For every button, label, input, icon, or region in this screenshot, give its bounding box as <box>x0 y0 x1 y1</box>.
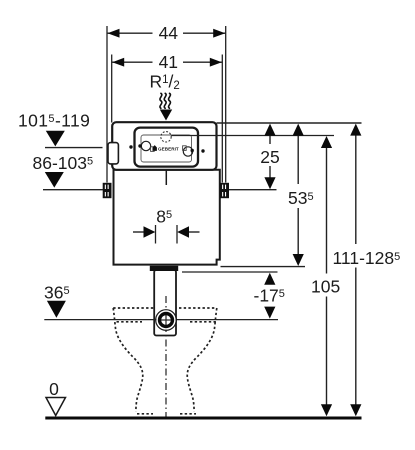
extension line left 44 <box>106 26 108 183</box>
flush pipe line below panel <box>165 170 167 185</box>
svg-text:25: 25 <box>260 147 279 167</box>
dimension 25 <box>269 130 271 144</box>
level line 36.5 <box>44 319 278 321</box>
dimension 53.5 <box>297 130 299 184</box>
level triangle 36.5 <box>47 301 66 318</box>
level line 101.5-119 <box>45 147 103 149</box>
reference line 53.5 bottom <box>221 266 306 268</box>
level line 86-103.5 <box>43 189 103 191</box>
access panel inner frame <box>141 135 192 162</box>
extension line right 41 <box>221 55 223 183</box>
leader line from water connection <box>171 135 334 137</box>
svg-text:111-1285: 111-1285 <box>333 248 401 268</box>
svg-text:535: 535 <box>288 188 314 208</box>
svg-text:41: 41 <box>159 52 178 72</box>
dimension -17.5 arrows <box>264 273 275 285</box>
svg-text:GEBERIT: GEBERIT <box>158 147 179 152</box>
svg-text:365: 365 <box>44 283 70 303</box>
svg-text:-175: -175 <box>254 286 285 306</box>
toilet bowl dashed outline <box>113 308 217 414</box>
dimension 111-128.5 <box>355 130 357 244</box>
svg-text:105: 105 <box>311 276 340 296</box>
extension line left 41 <box>111 55 113 123</box>
water connection dashed circle <box>161 132 171 142</box>
access panel outer <box>135 128 199 167</box>
svg-text:86-1035: 86-1035 <box>33 153 94 173</box>
dimension 105 <box>326 142 328 274</box>
outlet connection circle <box>156 310 177 331</box>
center line (dash-dot) <box>165 296 167 421</box>
water supply arrow <box>160 110 172 121</box>
left wall bracket <box>103 183 112 198</box>
left hole circle <box>141 141 150 150</box>
extension line right 44 <box>225 26 227 183</box>
floor line <box>45 417 361 420</box>
geberit logo <box>153 145 157 151</box>
cistern tank body <box>114 170 220 265</box>
screw dots <box>129 145 132 148</box>
dimension 8.5 arrows <box>133 231 144 233</box>
reference line 25 bottom <box>229 189 277 191</box>
level triangle 101.5-119 <box>46 131 65 147</box>
protective box (upper cover) <box>112 122 216 170</box>
reference line -17.5 top <box>182 271 278 273</box>
top reference line <box>217 122 362 124</box>
zero level open triangle <box>46 398 66 416</box>
svg-text:R1/2: R1/2 <box>150 72 180 92</box>
svg-text:44: 44 <box>159 23 179 43</box>
level triangle 86-103.5 <box>45 172 64 188</box>
left tab on box <box>108 143 118 164</box>
svg-text:1015-119: 1015-119 <box>18 111 90 131</box>
dimension 44 <box>107 32 153 34</box>
right hole circle <box>183 147 192 156</box>
svg-text:0: 0 <box>49 379 59 399</box>
dimension 41 <box>112 61 153 63</box>
dimension 8.5 extension ticks <box>155 225 157 244</box>
outlet pipe <box>154 270 176 336</box>
right wall bracket <box>220 183 229 198</box>
outlet flange <box>150 266 178 271</box>
water supply squiggle <box>160 93 171 108</box>
